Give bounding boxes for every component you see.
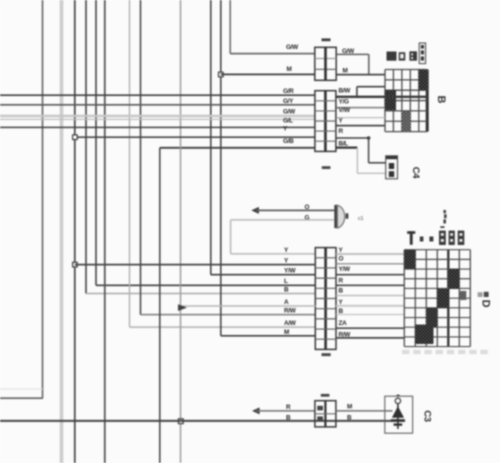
- grid D header tick: [440, 226, 444, 228]
- svg-text:L: L: [284, 278, 288, 285]
- wire branch up into grid B row2: [357, 87, 385, 97]
- wire H7 bottom long: [0, 420, 385, 422]
- wire into grid B row5: [336, 117, 385, 119]
- wire H4 light: [0, 118, 315, 120]
- svg-text:D: D: [480, 300, 492, 308]
- svg-text:O: O: [305, 204, 310, 211]
- wire C-01 row2 right to grid B: [336, 74, 385, 76]
- wire H6b (branch right from J3 to connector C-01): [221, 73, 315, 75]
- wire into grid B row6: [336, 125, 385, 127]
- grid D header dot 2: [429, 237, 433, 242]
- grid D hatch cols2-3 bottom: [415, 325, 433, 345]
- squiggle above grid D header: [443, 210, 446, 224]
- wire V1 (left bus, turns left at bottom): [0, 0, 43, 398]
- wire C-03 R8: [336, 327, 404, 329]
- wire bottom row1: [256, 410, 315, 412]
- svg-text:B: B: [339, 308, 344, 315]
- svg-text:R/W: R/W: [284, 308, 297, 315]
- wire V8 (turns right y=314.6): [141, 0, 316, 315]
- wire V10 light: [180, 0, 182, 463]
- svg-text:G/L: G/L: [283, 118, 293, 125]
- wire C-03 R3: [336, 274, 404, 276]
- grid D hatch col3 rows7-8: [426, 308, 437, 327]
- svg-text:B: B: [286, 415, 291, 422]
- wire H5: [0, 126, 315, 128]
- svg-text:R: R: [339, 128, 344, 135]
- wire V12 (junction y=74.4, turns right y=335.8): [221, 0, 316, 336]
- wire V5 (turns right y=285.3): [96, 0, 316, 285]
- svg-text:V/W: V/W: [339, 107, 351, 114]
- svg-text:B/L: B/L: [339, 141, 349, 148]
- connector C-02 label 1 below: [322, 166, 331, 169]
- svg-text:Y/W: Y/W: [284, 268, 296, 275]
- connector C4 box: [386, 156, 398, 179]
- svg-text:G/W: G/W: [283, 109, 296, 116]
- wire C-03 R9: [336, 337, 404, 339]
- connector grid D body: [404, 250, 470, 347]
- wire V6: [104, 0, 106, 463]
- grid B hatched cell mid-bottom: [402, 112, 410, 132]
- svg-text:c1: c1: [358, 216, 364, 222]
- grid D header dot 1: [420, 237, 424, 242]
- wire H6 (from junction on V3): [75, 136, 315, 138]
- svg-text:M: M: [287, 66, 292, 73]
- wire C-02 row5 right leg to C4: [336, 136, 386, 163]
- connector C-03 body: [315, 248, 336, 350]
- wire H1: [0, 94, 315, 96]
- svg-text:M: M: [343, 68, 348, 75]
- component label D: [478, 292, 492, 308]
- arrow A1 (to horn wire): [251, 207, 259, 214]
- grid B header boxed char: [419, 43, 425, 64]
- horn M1 symbol: [334, 205, 348, 228]
- svg-text:B: B: [435, 95, 447, 103]
- junction ring J1 on V3: [73, 135, 78, 140]
- wire V11 (turns right y=274.7): [211, 0, 316, 275]
- svg-text:B/W: B/W: [339, 88, 352, 95]
- wire H3 light band: [0, 115, 315, 118]
- wire C-03 R2 medium: [336, 263, 404, 265]
- wire V4 (turns right y=293.5): [86, 0, 316, 294]
- svg-text:B: B: [284, 287, 289, 294]
- wire C-03 R1 light: [336, 253, 404, 255]
- wire horn return loop (light): [231, 220, 335, 254]
- wire C-03 L6 light with arrow A2: [178, 304, 316, 311]
- wire thick through grid B: [336, 96, 427, 98]
- grid D hatch col4 rows5-6: [437, 289, 448, 308]
- svg-text:B: B: [339, 288, 344, 295]
- connector grid B body: [385, 70, 427, 132]
- wire H2: [0, 104, 315, 106]
- wire to horn: [256, 209, 334, 211]
- connector C-01 body: [315, 47, 336, 80]
- svg-text:O: O: [339, 256, 344, 263]
- wire into grid B row4: [336, 107, 385, 109]
- svg-text:A/W: A/W: [284, 320, 297, 327]
- svg-text:Y/G: Y/G: [339, 99, 349, 106]
- svg-text:G/B: G/B: [283, 138, 294, 145]
- grid D header digit 2: [449, 231, 455, 245]
- svg-text:G/W: G/W: [286, 44, 299, 51]
- svg-text:R/W: R/W: [339, 331, 352, 338]
- connector C-03 label 1 below: [322, 353, 331, 356]
- wire V7 light (turns right y=327.1): [130, 0, 316, 327]
- wire V2 gray band: [60, 0, 64, 463]
- grid D hatch top-left: [404, 250, 415, 269]
- wire C-03 R7 light: [336, 314, 404, 316]
- svg-text:C4: C4: [410, 167, 421, 180]
- grid D header digit 1: [439, 231, 446, 245]
- grid D header T glyph: [407, 231, 415, 245]
- arrow A3 (bottom wire): [252, 407, 260, 414]
- wire V9 (from y=148 down; turns right into connector C-02 bottom row): [160, 148, 315, 463]
- svg-text:ZA: ZA: [339, 320, 348, 327]
- grid B header text blob 1: [387, 52, 397, 61]
- wire C-02 row6 right leg to C4 (light): [336, 148, 386, 174]
- connector C-04 body: [315, 401, 336, 427]
- grid D hatch col5 rows3-4: [448, 269, 459, 288]
- svg-text:M: M: [284, 329, 289, 336]
- junction ring J3 on V12: [219, 72, 224, 77]
- connector C-04 label 1 above: [321, 394, 330, 397]
- svg-text:G/R: G/R: [283, 88, 294, 95]
- wire C-04 row1 right: [336, 410, 385, 412]
- component M2 box (cigar lighter): [385, 395, 413, 434]
- grid B hatched cell top-right: [419, 70, 427, 91]
- grid B header text blob 3: [409, 51, 417, 60]
- grid B header text blob 2: [399, 52, 406, 60]
- svg-text:Y/W: Y/W: [339, 266, 351, 273]
- grid B hatched cell left-middle: [385, 90, 396, 110]
- wire C-01 row1 right leg: [336, 54, 369, 74]
- wire V3: [74, 0, 76, 463]
- wire C-03 R6 light band: [336, 305, 404, 307]
- svg-text:B: B: [347, 415, 352, 422]
- svg-text:R: R: [286, 404, 291, 411]
- wire C-03 R5 light: [336, 295, 404, 297]
- wire V13 (turns right y=53.6 into connector C-01): [230, 0, 315, 54]
- grid D hatch col6 row5 light: [459, 291, 466, 300]
- svg-text:R: R: [339, 278, 344, 285]
- wire C-03 R4: [336, 284, 404, 286]
- faint note text row: [402, 350, 488, 354]
- svg-text:C3: C3: [422, 410, 433, 422]
- svg-text:M: M: [347, 404, 352, 411]
- junction ring J4 on V10: [178, 419, 183, 424]
- connector C-02 body: [315, 91, 336, 152]
- grid D header digit 3: [458, 231, 465, 245]
- wire C-03 L2: [75, 264, 316, 266]
- connector C-01 label 1: [322, 38, 331, 41]
- svg-text:A: A: [284, 299, 289, 306]
- svg-text:G/Y: G/Y: [283, 98, 294, 105]
- junction ring J2 on V3: [73, 262, 78, 267]
